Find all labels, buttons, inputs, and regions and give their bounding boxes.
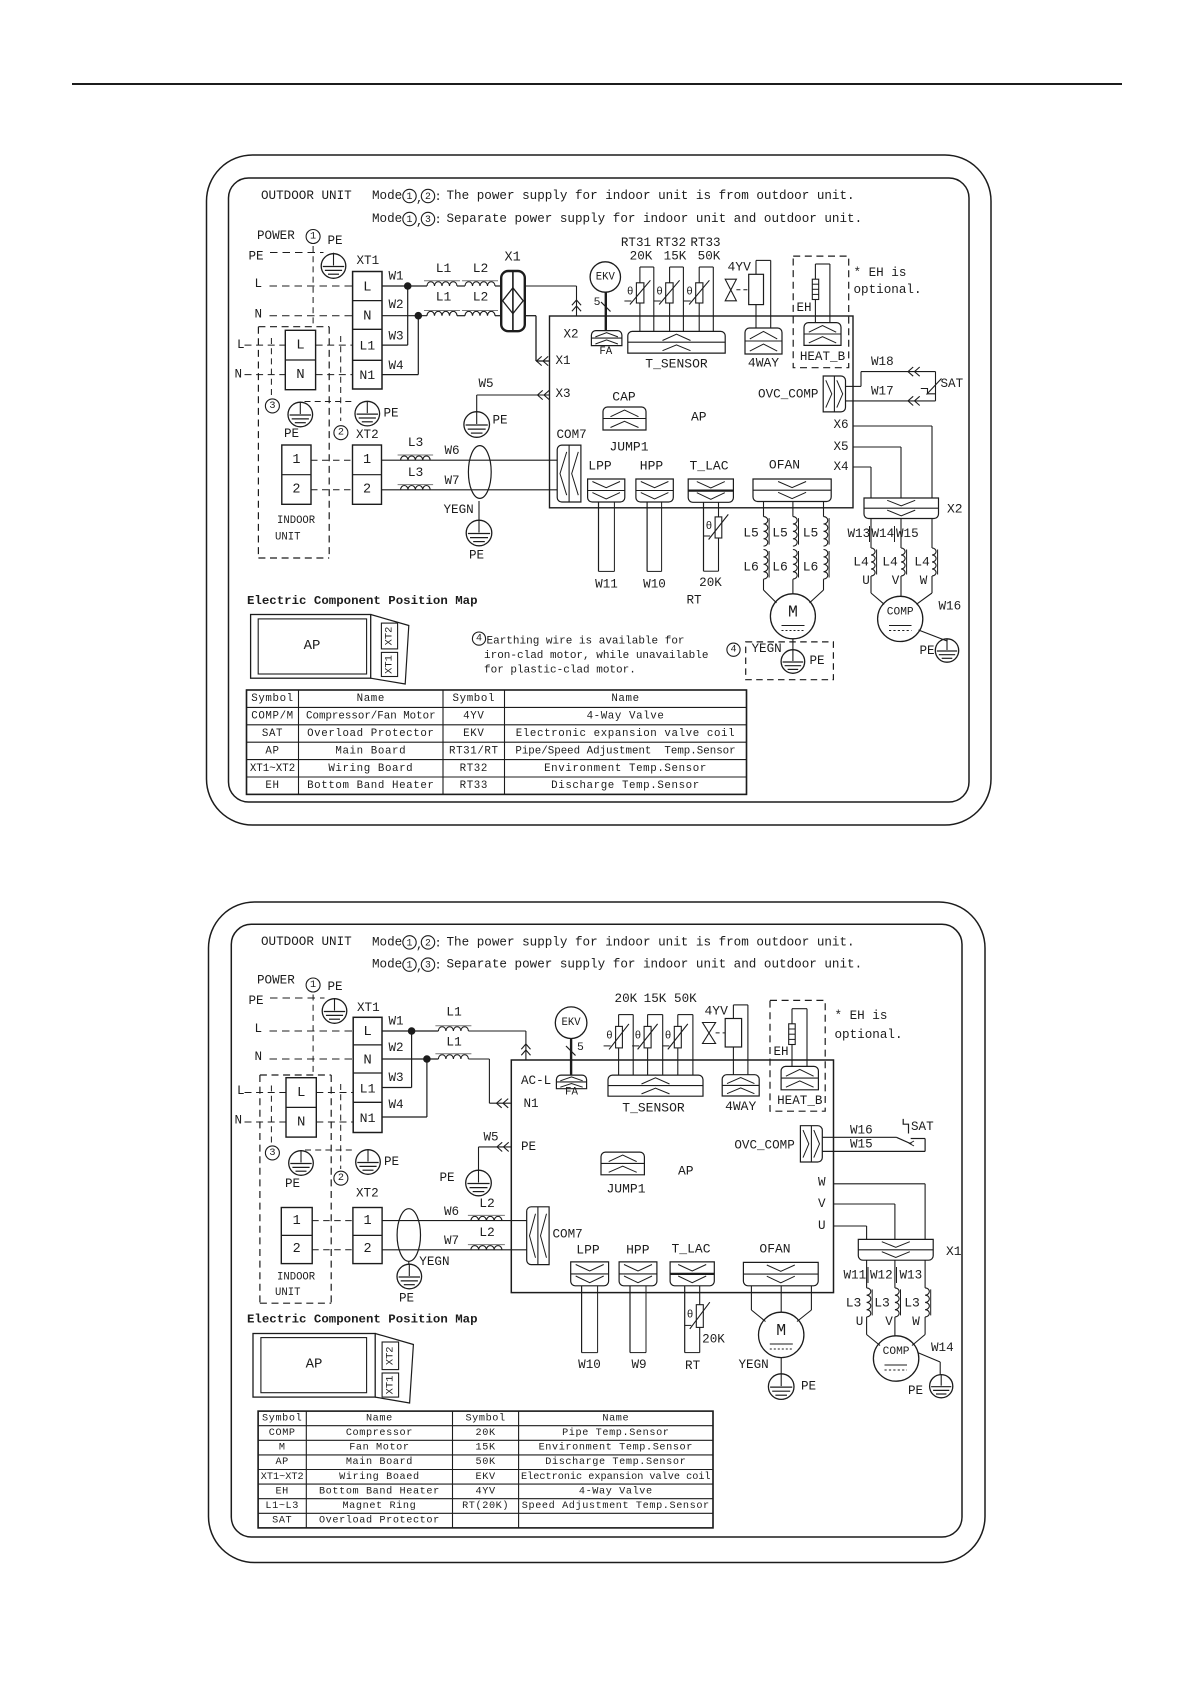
component table p1 — [247, 690, 747, 794]
board terminal label X2 — [564, 327, 579, 341]
svg-text:3: 3 — [269, 1148, 275, 1159]
svg-text:AP: AP — [304, 638, 321, 654]
EKV coil p1 — [590, 262, 620, 331]
inductor L5 fan3 — [803, 517, 829, 547]
svg-text:Overload Protector: Overload Protector — [307, 728, 434, 740]
svg-text:N1: N1 — [359, 368, 375, 383]
svg-text:W: W — [920, 574, 928, 588]
dashed link terminal row2 — [311, 489, 353, 491]
label L row1 p2 — [255, 1022, 263, 1036]
svg-text:RT33: RT33 — [460, 780, 488, 792]
svg-text:Fan Motor: Fan Motor — [349, 1443, 409, 1454]
board terminal label X1 — [556, 354, 571, 368]
svg-text:L1: L1 — [446, 1004, 462, 1019]
svg-text:L: L — [363, 1024, 371, 1040]
label PE left — [249, 250, 264, 264]
circled mode 1 p2 — [306, 978, 320, 992]
svg-text:PE: PE — [285, 1177, 300, 1191]
label W5 — [479, 377, 494, 391]
inductor L3 U p2 — [846, 1288, 873, 1317]
svg-text:L3: L3 — [904, 1296, 920, 1311]
label RT p1 — [686, 594, 702, 608]
svg-text:N1: N1 — [360, 1111, 376, 1126]
svg-text:N: N — [296, 367, 304, 383]
svg-text:4WAY: 4WAY — [748, 356, 779, 371]
svg-text:W16: W16 — [939, 600, 962, 614]
wire X1 pin U p2 — [866, 1260, 868, 1288]
svg-text:X3: X3 — [556, 387, 571, 401]
board terminal label N1 p2 — [524, 1097, 539, 1111]
svg-text:iron-clad motor, while unavail: iron-clad motor, while unavailable — [484, 650, 708, 662]
svg-text:PE: PE — [469, 549, 484, 563]
label OVC_COMP p2 — [734, 1139, 794, 1153]
panel 1 inner border — [229, 178, 970, 802]
svg-text:W17: W17 — [871, 385, 894, 399]
PE earth symbol W5 p1 — [464, 412, 490, 438]
label W5 p2 — [484, 1130, 499, 1144]
svg-text:W14: W14 — [872, 527, 895, 541]
svg-text:L5: L5 — [803, 526, 819, 541]
svg-text:5: 5 — [594, 297, 601, 309]
thermistor 20K body p2 — [604, 1024, 629, 1050]
label 4WAY p2 — [725, 1099, 756, 1114]
panel 2 mode note line 1 — [372, 935, 855, 952]
svg-text:θ: θ — [687, 1310, 694, 1322]
svg-text:2: 2 — [293, 1242, 301, 1257]
svg-text:W12: W12 — [870, 1268, 893, 1282]
label W3 p2 — [389, 1071, 404, 1085]
svg-text:1: 1 — [407, 960, 413, 971]
wire W to COMP — [916, 576, 932, 604]
wire W5 p2 — [479, 1147, 512, 1170]
svg-text:L: L — [255, 277, 263, 291]
svg-text:L6: L6 — [803, 560, 819, 575]
label N row2 p2 — [235, 1114, 243, 1128]
PE earth symbol top — [321, 253, 346, 279]
wire W7 — [382, 489, 558, 491]
connector T_SENSOR p1 — [628, 331, 725, 353]
label W17 — [871, 385, 894, 399]
connector 4WAY p1 — [745, 328, 782, 354]
svg-text:1: 1 — [363, 1214, 371, 1229]
label PE COMP p2 — [908, 1384, 923, 1398]
label OFAN p1 — [769, 458, 800, 473]
dashed wire N row p2 — [270, 1058, 354, 1060]
svg-text:L6: L6 — [772, 560, 788, 575]
wire W4 — [382, 316, 418, 375]
svg-text:W15: W15 — [850, 1138, 873, 1152]
svg-text:5: 5 — [577, 1042, 584, 1054]
svg-text:L1: L1 — [360, 1082, 376, 1097]
svg-text:JUMP1: JUMP1 — [606, 1181, 645, 1196]
wire W10 loop p2 — [582, 1286, 598, 1353]
svg-text:W5: W5 — [484, 1130, 499, 1144]
svg-text:Symbol: Symbol — [251, 693, 293, 705]
svg-text:XT2: XT2 — [384, 627, 396, 646]
label W10 p1 — [643, 578, 666, 592]
wire YEGN to PE p2 — [408, 1261, 410, 1264]
dashed wire N1 row p2 — [245, 1121, 354, 1123]
overload protector SAT p2 — [896, 1119, 914, 1146]
inductor L1 row1 — [424, 261, 460, 286]
magnet ring YEGN p2 — [397, 1209, 420, 1262]
wire W6 p2 — [382, 1220, 527, 1222]
label W14 — [872, 527, 895, 541]
svg-text:XT1: XT1 — [384, 1376, 396, 1395]
svg-text:PE: PE — [810, 654, 825, 668]
thermistor RT32 body — [654, 280, 680, 304]
wire W4 p2 — [382, 1059, 427, 1117]
note EH optional p1 — [854, 266, 922, 297]
svg-text:PE: PE — [328, 234, 343, 248]
svg-text:EH: EH — [797, 301, 812, 315]
label SAT p1 — [941, 377, 964, 391]
svg-text:X2: X2 — [947, 502, 963, 517]
indoor L/N terminal block — [285, 330, 315, 389]
label W16 — [939, 600, 962, 614]
svg-text:N: N — [363, 309, 371, 325]
connector OVC_COMP p2 — [800, 1126, 822, 1162]
inductor L4 V — [882, 548, 906, 576]
svg-text:Bottom Band Heater: Bottom Band Heater — [319, 1485, 440, 1497]
svg-text:L3: L3 — [846, 1296, 862, 1311]
board terminal label U p2 — [818, 1219, 826, 1233]
wire W to COMP p2 — [912, 1317, 925, 1346]
label YEGN motor p1 — [752, 642, 782, 656]
inductor L1 row2 p2 — [435, 1035, 471, 1060]
svg-text:2: 2 — [338, 428, 344, 439]
svg-text:Wiring Board: Wiring Board — [328, 763, 413, 775]
label W p1 — [920, 574, 928, 588]
label INDOOR p2 — [277, 1271, 316, 1283]
wire V to COMP p2 — [894, 1317, 896, 1336]
arrows left W18 — [908, 367, 920, 376]
dashed link PE pair p2 — [305, 1149, 354, 1151]
svg-text:N: N — [235, 367, 243, 381]
position map trapezoid p2 — [375, 1334, 413, 1404]
note 4 earthing p1 — [472, 632, 708, 677]
svg-text:FA: FA — [599, 346, 612, 358]
PE earth symbol mode2 p2 — [356, 1150, 381, 1175]
svg-text:AC-L: AC-L — [521, 1074, 551, 1088]
inductor L5 fan1 — [743, 517, 769, 547]
label U p1 — [862, 574, 870, 588]
svg-text:L: L — [237, 1084, 245, 1098]
4YV wire top p2 — [733, 1005, 748, 1075]
wire V to COMP — [900, 576, 902, 596]
component table p2 — [258, 1411, 713, 1528]
connector LPP p2 — [571, 1262, 609, 1286]
svg-text:W11: W11 — [595, 578, 618, 592]
svg-text:2: 2 — [363, 1242, 371, 1257]
wire X4 — [853, 467, 871, 498]
label 20K RT p1 — [699, 576, 722, 590]
label UNIT — [275, 532, 300, 544]
arrows left PE entry p2 — [497, 1142, 509, 1151]
svg-text:XT1~XT2: XT1~XT2 — [250, 763, 295, 775]
svg-text:COM7: COM7 — [557, 428, 587, 442]
label W7 — [445, 474, 460, 488]
svg-text:AP: AP — [306, 1357, 323, 1373]
svg-text::: : — [435, 190, 442, 204]
terminal block XT2 p2 — [353, 1208, 382, 1264]
svg-text:Name: Name — [602, 1413, 629, 1424]
connector X2 right p1 — [864, 498, 939, 519]
svg-text:PE: PE — [801, 1380, 816, 1394]
label YEGN p2 motor — [739, 1358, 769, 1372]
board terminal label W p2 — [818, 1175, 826, 1189]
connector T_SENSOR p2 — [608, 1075, 703, 1096]
svg-text:L3: L3 — [408, 465, 424, 480]
svg-text:Main Board: Main Board — [335, 745, 406, 757]
svg-text:PE: PE — [521, 1140, 536, 1154]
EH dashed box p1 — [793, 256, 849, 368]
svg-text:M: M — [788, 603, 798, 622]
wire W1 L-row p2 — [382, 1031, 526, 1060]
svg-text:EH: EH — [275, 1486, 288, 1497]
wire W7 p2 — [382, 1249, 527, 1251]
label W13 p2 — [900, 1268, 923, 1282]
indoor L/N terminal block p2 — [286, 1078, 316, 1137]
connector OFAN p2 — [743, 1262, 818, 1285]
svg-text:Discharge Temp.Sensor: Discharge Temp.Sensor — [545, 1456, 686, 1468]
svg-text:2: 2 — [363, 483, 371, 498]
label PE W5 p1 — [493, 414, 508, 428]
mode 1 dashed stem p2 — [312, 995, 314, 1076]
svg-text:L: L — [363, 280, 371, 296]
svg-text:1: 1 — [407, 937, 413, 948]
svg-text:V: V — [885, 1315, 893, 1329]
label T_LAC p1 — [689, 459, 728, 474]
label V p1 — [892, 574, 900, 588]
svg-text:W2: W2 — [389, 298, 404, 312]
svg-text:W1: W1 — [389, 1014, 404, 1028]
svg-text:W10: W10 — [643, 578, 666, 592]
dashed wire PE row — [270, 252, 324, 254]
dashed stem v2 — [270, 338, 272, 397]
label 50K p2 — [674, 992, 697, 1006]
svg-text:XT1: XT1 — [357, 254, 380, 268]
PE earth symbol mode3 — [288, 402, 313, 427]
label EH p2 — [774, 1045, 789, 1059]
svg-text:AP: AP — [265, 745, 279, 757]
EKV coil p2 — [555, 1007, 587, 1075]
label U p2 — [856, 1315, 864, 1329]
svg-text:Overload Protector: Overload Protector — [319, 1515, 440, 1527]
label 4WAY p1 — [748, 356, 779, 371]
svg-text:RT31/RT: RT31/RT — [449, 745, 499, 757]
svg-text:4-Way Valve: 4-Way Valve — [579, 1485, 653, 1497]
dashed wire L row p2 — [270, 1030, 354, 1032]
svg-text:YEGN: YEGN — [739, 1358, 769, 1372]
svg-text:T_LAC: T_LAC — [689, 459, 728, 474]
svg-text:1: 1 — [407, 214, 413, 225]
wire OFAN pin1 p2 — [751, 1286, 765, 1322]
dashed wire N1 row — [245, 374, 353, 376]
panel 2 mode note line 2 — [372, 958, 862, 975]
svg-text:U: U — [818, 1219, 826, 1233]
wire W1 L-row — [382, 285, 501, 287]
heading position map p1 — [247, 594, 478, 608]
panel 1 title OUTDOOR UNIT — [261, 189, 352, 203]
panel 2 inner border — [231, 924, 962, 1537]
position map trapezoid p1 — [371, 615, 409, 685]
svg-text:L1~L3: L1~L3 — [265, 1501, 299, 1512]
svg-text:20K: 20K — [699, 576, 722, 590]
svg-text:OVC_COMP: OVC_COMP — [758, 388, 818, 402]
label PE top p2 — [328, 980, 343, 994]
inductor L2 row2 p2 — [468, 1225, 505, 1250]
mainboard AP outline p2 — [511, 1060, 833, 1293]
wire YEGN to PE — [478, 501, 480, 520]
svg-text::: : — [435, 213, 442, 227]
svg-text:* EH is: * EH is — [835, 1009, 888, 1023]
connector CAP p1 — [603, 407, 646, 430]
connector HPP p2 — [619, 1262, 657, 1286]
wire W5 — [477, 395, 550, 412]
connector FA p1 — [591, 331, 622, 346]
connector OFAN p1 — [753, 479, 831, 502]
wire X1 pin W p2 — [924, 1260, 926, 1288]
svg-text:OUTDOOR UNIT: OUTDOOR UNIT — [261, 935, 352, 949]
PE earth symbol COMP p1 — [935, 639, 958, 662]
page top rule — [72, 83, 1122, 85]
svg-text:Pipe/Speed Adjustment Temp.Se: Pipe/Speed Adjustment Temp.Sensor — [515, 745, 735, 757]
label RT31 — [621, 236, 651, 250]
svg-text:W3: W3 — [389, 330, 404, 344]
terminal block XT1 p2 — [353, 1017, 382, 1132]
svg-text:PE: PE — [284, 427, 299, 441]
svg-text:L1: L1 — [446, 1035, 462, 1050]
svg-text:UNIT: UNIT — [275, 532, 300, 544]
svg-text:Separate power supply for indo: Separate power supply for indoor unit an… — [447, 958, 863, 972]
dashed wire N row — [270, 315, 353, 317]
4YV coil body p2 — [725, 1019, 741, 1048]
svg-text:15K: 15K — [644, 992, 667, 1006]
divider W11/W12 p2 — [867, 1267, 869, 1283]
label PE mode3 p2 — [285, 1177, 300, 1191]
label PE W5 p2 — [440, 1171, 455, 1185]
indoor terminal block 1/2 p2 — [281, 1208, 312, 1264]
svg-text:W18: W18 — [871, 355, 894, 369]
svg-text::: : — [435, 936, 442, 950]
label T_SENSOR p2 — [622, 1100, 685, 1115]
svg-text:4: 4 — [730, 645, 736, 656]
svg-text:4YV: 4YV — [705, 1004, 729, 1019]
svg-text:EKV: EKV — [476, 1472, 496, 1483]
board terminal label PE p2 — [521, 1140, 536, 1154]
circled note 4 yegn — [727, 643, 740, 656]
svg-text:4YV: 4YV — [476, 1486, 496, 1497]
inductor L6 fan3 — [803, 550, 829, 580]
thermistor RT33 wires — [699, 267, 713, 331]
4YV coil body p1 — [749, 274, 764, 304]
svg-text:RT: RT — [686, 594, 702, 608]
label W6 — [445, 444, 460, 458]
circled mode 2 p2 — [334, 1171, 348, 1185]
wire M to PE p2 — [780, 1358, 782, 1374]
svg-text:Pipe Temp.Sensor: Pipe Temp.Sensor — [562, 1427, 669, 1439]
panel 1 mode note line 1 — [372, 189, 855, 206]
svg-text:Compressor/Fan Motor: Compressor/Fan Motor — [306, 711, 436, 723]
label JUMP1 p1 — [609, 440, 648, 455]
inductor L3 row2 — [398, 465, 434, 490]
svg-text:L4: L4 — [882, 555, 898, 570]
4YV wire top p1 — [756, 260, 771, 328]
fan motor M p1 — [770, 594, 815, 639]
label W1 — [389, 270, 404, 284]
dashed stem mode2 p2 — [340, 1084, 342, 1169]
svg-text:4WAY: 4WAY — [725, 1099, 756, 1114]
svg-text:θ: θ — [627, 286, 634, 298]
svg-text:3: 3 — [425, 214, 431, 225]
label N row1 — [255, 308, 263, 322]
label W14 p2 — [931, 1341, 954, 1355]
svg-text:Name: Name — [357, 693, 385, 705]
wire OFAN pin3 — [810, 502, 824, 603]
svg-text:L: L — [296, 338, 304, 354]
inductor L6 fan1 — [743, 550, 769, 580]
svg-text:RT: RT — [685, 1359, 701, 1373]
label X2 right p1 — [947, 502, 963, 517]
label YEGN p2 — [419, 1255, 449, 1269]
panel 2 title OUTDOOR UNIT — [261, 935, 352, 949]
wire W14 p2 — [918, 1353, 941, 1375]
svg-text:FA: FA — [565, 1087, 578, 1099]
svg-text:L5: L5 — [743, 526, 759, 541]
svg-text:XT2: XT2 — [356, 428, 379, 442]
svg-text:Name: Name — [611, 693, 639, 705]
svg-text:W10: W10 — [578, 1358, 601, 1372]
svg-text:L2: L2 — [473, 290, 489, 305]
circled mode 3 p2 — [265, 1146, 279, 1160]
svg-text:XT2: XT2 — [356, 1187, 379, 1201]
svg-text:W1: W1 — [389, 270, 404, 284]
inductor L1 row1 p2 — [435, 1004, 471, 1031]
inductor L3 W p2 — [904, 1288, 931, 1317]
svg-text:V: V — [892, 574, 900, 588]
svg-text:for plastic-clad motor.: for plastic-clad motor. — [484, 665, 636, 677]
label W9 p2 — [631, 1358, 646, 1372]
label L row2 p2 — [237, 1084, 245, 1098]
svg-text:4YV: 4YV — [463, 711, 484, 723]
label 4YV p1 — [728, 260, 752, 275]
label W1 p2 — [389, 1014, 404, 1028]
label L row2 — [237, 338, 245, 352]
svg-text:U: U — [856, 1315, 864, 1329]
label LPP p1 — [588, 459, 612, 474]
wire RT loop p2 — [685, 1286, 700, 1353]
position map box p2 — [253, 1334, 375, 1398]
svg-text:optional.: optional. — [854, 283, 922, 297]
svg-text:3: 3 — [269, 401, 275, 412]
thermistor RT 20K p1 — [703, 514, 728, 539]
svg-text:20K: 20K — [702, 1332, 725, 1346]
wire OFAN pin2 p2 — [780, 1286, 782, 1312]
PE earth symbol top p2 — [322, 998, 347, 1023]
svg-text:OUTDOOR UNIT: OUTDOOR UNIT — [261, 189, 352, 203]
terminal block XT1 — [353, 272, 382, 390]
label RT p2 — [685, 1359, 701, 1373]
svg-text:PE: PE — [920, 644, 935, 658]
svg-text:L: L — [255, 1022, 263, 1036]
label COM7 p2 — [553, 1227, 583, 1241]
svg-text:θ: θ — [665, 1031, 672, 1043]
svg-text:L1: L1 — [359, 339, 375, 354]
svg-text:1: 1 — [293, 1214, 301, 1229]
svg-text:Wiring Boaed: Wiring Boaed — [339, 1471, 420, 1483]
PE earth symbol motor p1 — [781, 650, 805, 674]
